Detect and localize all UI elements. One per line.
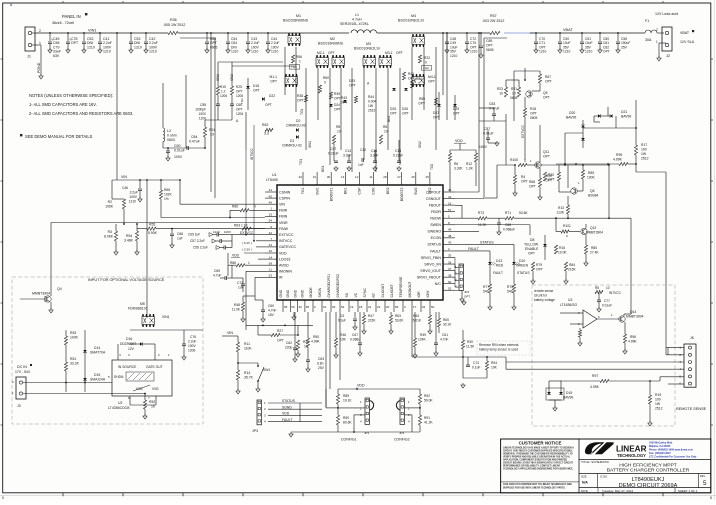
svg-text:CLKOUT: CLKOUT (381, 284, 385, 298)
svg-text:33.2K: 33.2K (70, 362, 80, 366)
svg-text:FAULT: FAULT (430, 249, 442, 253)
svg-text:THIS CIRCUIT IS PROPRIETARY TO: THIS CIRCUIT IS PROPRIETARY TO LINEAR TE… (503, 483, 572, 486)
svg-text:OPT: OPT (543, 96, 550, 100)
svg-text:L2: L2 (167, 129, 171, 133)
svg-text:JP1: JP1 (364, 431, 370, 435)
svg-text:IMONOUT: IMONOUT (408, 281, 412, 297)
svg-text:NOTES (UNLESS OTHERWISE SPECIF: NOTES (UNLESS OTHERWISE SPECIFIED): (29, 93, 113, 98)
svg-text:SIZE: SIZE (581, 475, 587, 478)
svg-text:R49: R49 (420, 333, 426, 337)
svg-text:CSN: CSN (372, 187, 376, 195)
svg-text:OPT: OPT (340, 101, 347, 105)
svg-text:SW2: SW2 (418, 141, 422, 148)
svg-text:LINEAR TECHNOLOGY HAS MADE A B: LINEAR TECHNOLOGY HAS MADE A BEST EFFORT… (503, 446, 574, 449)
svg-text:FBOUT: FBOUT (429, 203, 442, 207)
svg-text:OPT: OPT (528, 252, 535, 256)
svg-text:36cell - 72cell: 36cell - 72cell (52, 21, 74, 25)
svg-text:C61: C61 (442, 333, 448, 337)
svg-text:1: 1 (299, 60, 301, 64)
svg-text:EXTVCC: EXTVCC (279, 233, 294, 237)
svg-text:BSC010NE2LSI: BSC010NE2LSI (398, 19, 424, 23)
svg-text:48: 48 (448, 234, 452, 238)
svg-text:STATUS: STATUS (480, 241, 494, 245)
svg-text:OPT: OPT (545, 179, 552, 183)
svg-text:remote sense: remote sense (534, 289, 554, 293)
svg-text:SRVO_IIN: SRVO_IIN (424, 262, 441, 266)
svg-text:R48: R48 (234, 303, 240, 307)
svg-text:R14: R14 (244, 371, 250, 375)
svg-text:4.99K: 4.99K (613, 158, 623, 162)
svg-text:TEMPSENSE: TEMPSENSE (399, 276, 403, 298)
svg-text:17: 17 (413, 305, 417, 309)
svg-text:VIN: VIN (227, 331, 233, 335)
svg-text:3.48K: 3.48K (124, 239, 134, 243)
svg-text:.005 1W 2512: .005 1W 2512 (163, 23, 185, 27)
svg-text:R92: R92 (424, 394, 430, 398)
svg-text:REV.: REV. (700, 475, 706, 478)
svg-text:5.01K: 5.01K (413, 319, 422, 323)
svg-text:10K: 10K (491, 366, 498, 370)
svg-text:0.1uF: 0.1uF (338, 319, 346, 323)
svg-text:5.90K: 5.90K (148, 231, 158, 235)
svg-text:100K: 100K (587, 176, 596, 180)
svg-text:0.47uF: 0.47uF (189, 140, 200, 144)
svg-text:1206: 1206 (220, 94, 227, 98)
svg-text:D21: D21 (621, 110, 627, 114)
svg-text:R75: R75 (507, 285, 513, 289)
svg-text:10: 10 (499, 92, 503, 96)
svg-text:R59: R59 (419, 97, 425, 101)
svg-text:CSNOUT: CSNOUT (426, 197, 442, 201)
svg-text:U1: U1 (272, 173, 277, 177)
svg-text:0.01uF: 0.01uF (174, 149, 185, 153)
svg-text:C63: C63 (318, 357, 324, 361)
svg-text:DATE:: DATE: (581, 490, 588, 493)
svg-text:GND: GND (293, 289, 297, 297)
svg-text:41: 41 (448, 195, 452, 199)
svg-text:IMONIN: IMONIN (279, 270, 292, 274)
svg-text:OPT: OPT (297, 99, 304, 103)
svg-text:59.0K: 59.0K (424, 399, 433, 403)
svg-text:BOOST1: BOOST1 (329, 187, 333, 201)
svg-text:549: 549 (507, 290, 513, 294)
svg-text:VDD: VDD (357, 384, 365, 388)
svg-text:BSC016N06NS: BSC016N06NS (318, 42, 344, 46)
svg-text:R25: R25 (236, 85, 242, 89)
svg-text:GATE OUT: GATE OUT (146, 365, 163, 369)
svg-text:IOR: IOR (417, 291, 421, 298)
svg-text:R80: R80 (591, 246, 597, 250)
svg-text:JP3: JP3 (252, 429, 258, 433)
svg-text:CHARGECFG1: CHARGECFG1 (327, 274, 331, 298)
svg-text:FBOW: FBOW (430, 217, 441, 221)
svg-text:BG2: BG2 (387, 115, 391, 122)
svg-text:R62: R62 (262, 123, 268, 127)
svg-text:R39: R39 (334, 92, 340, 96)
svg-text:R55: R55 (149, 223, 155, 227)
svg-text:MODE: MODE (309, 287, 313, 298)
svg-text:4.99K: 4.99K (311, 340, 320, 344)
svg-text:R47: R47 (368, 314, 374, 318)
svg-text:1210: 1210 (271, 50, 279, 54)
svg-text:0: 0 (324, 81, 326, 85)
svg-text:2- ALL SMD CAPACITORS AND RESI: 2- ALL SMD CAPACITORS AND RESISTORS ARE … (29, 111, 133, 116)
svg-text:Q6: Q6 (590, 189, 595, 193)
svg-text:OPT: OPT (418, 102, 425, 106)
svg-text:M2: M2 (330, 37, 335, 41)
svg-text:C14: C14 (345, 149, 351, 153)
svg-text:ENABLE: ENABLE (525, 247, 539, 251)
svg-text:R90: R90 (343, 416, 349, 420)
svg-text:R16: R16 (559, 246, 565, 250)
svg-text:( 3.3V ): ( 3.3V ) (242, 247, 252, 251)
svg-text:37: 37 (448, 267, 452, 271)
svg-text:CMMR1U-02: CMMR1U-02 (282, 144, 302, 148)
svg-text:EXTVCC: EXTVCC (521, 124, 525, 138)
svg-text:0 ohm: 0 ohm (167, 134, 177, 138)
svg-text:C85: C85 (200, 103, 206, 107)
svg-text:10.0K: 10.0K (558, 251, 567, 255)
svg-text:10K: 10K (340, 338, 347, 342)
svg-text:32: 32 (299, 175, 303, 179)
svg-text:12V SLA: 12V SLA (680, 40, 695, 44)
svg-text:1210: 1210 (450, 54, 458, 58)
svg-text:R6: R6 (454, 162, 458, 166)
svg-text:BG1: BG1 (344, 187, 348, 194)
svg-text:4.99K: 4.99K (590, 385, 600, 389)
svg-text:1uF: 1uF (177, 237, 183, 241)
svg-text:CSP: CSP (358, 187, 362, 195)
svg-text:D1: D1 (290, 139, 294, 143)
svg-text:R19: R19 (655, 393, 661, 397)
svg-text:R8: R8 (336, 125, 340, 129)
svg-text:42: 42 (269, 231, 273, 235)
svg-text:0.22uF: 0.22uF (328, 152, 339, 156)
svg-text:INTVCC: INTVCC (250, 147, 254, 160)
svg-text:PANEL IN: PANEL IN (62, 14, 81, 19)
svg-text:BSC028N06NS: BSC028N06NS (283, 19, 309, 23)
svg-text:R43: R43 (341, 96, 347, 100)
svg-text:20: 20 (386, 305, 390, 309)
svg-text:N/A: N/A (582, 481, 588, 485)
svg-text:R60: R60 (323, 76, 329, 80)
svg-text:D26: D26 (402, 107, 408, 111)
svg-text:10: 10 (512, 92, 516, 96)
svg-text:C69: C69 (214, 269, 220, 273)
svg-text:VIN: VIN (121, 175, 127, 179)
svg-text:R17: R17 (641, 143, 647, 147)
svg-text:53.6K: 53.6K (519, 211, 528, 215)
svg-text:100V: 100V (174, 155, 183, 159)
svg-text:1%: 1% (164, 197, 169, 201)
svg-text:FBIR: FBIR (279, 209, 288, 213)
svg-text:D2: D2 (296, 119, 300, 123)
svg-text:C83: C83 (489, 102, 495, 106)
svg-text:15: 15 (269, 213, 273, 217)
svg-text:R2: R2 (108, 200, 112, 204)
svg-text:HOWEVER, IT REMAINS THE CUSTOM: HOWEVER, IT REMAINS THE CUSTOMER'S RESPO… (503, 452, 573, 455)
svg-text:OPT: OPT (536, 268, 543, 272)
svg-text:113K: 113K (557, 211, 565, 215)
svg-text:BAV99: BAV99 (566, 116, 576, 120)
svg-text:LT1636/SO: LT1636/SO (560, 303, 577, 307)
svg-text:SMAT70A: SMAT70A (90, 351, 106, 355)
svg-text:0605: 0605 (486, 48, 494, 52)
svg-text:TITLE: SCHEMATIC: TITLE: SCHEMATIC (581, 460, 610, 464)
svg-text:HIGH EFFICIENCY MPPT: HIGH EFFICIENCY MPPT (619, 462, 677, 468)
svg-text:C89: C89 (486, 39, 492, 43)
svg-text:OPT: OPT (402, 112, 409, 116)
svg-text:R67: R67 (545, 75, 551, 79)
svg-text:D29: D29 (453, 107, 459, 111)
svg-text:FBIN: FBIN (279, 215, 288, 219)
svg-text:VDD: VDD (282, 412, 290, 416)
svg-text:YELLOW: YELLOW (524, 243, 539, 247)
svg-text:57: 57 (448, 208, 452, 212)
svg-text:4.7uH: 4.7uH (352, 18, 362, 22)
svg-text:2: 2 (656, 28, 658, 32)
svg-text:Q14: Q14 (630, 310, 637, 314)
svg-text:C62: C62 (286, 341, 292, 345)
svg-text:TG1: TG1 (301, 187, 305, 194)
svg-text:SWENO: SWENO (427, 230, 441, 234)
svg-text:11.0K: 11.0K (232, 308, 241, 312)
svg-text:BAV99: BAV99 (621, 115, 631, 119)
svg-text:8.06K: 8.06K (104, 235, 114, 239)
svg-text:124K: 124K (418, 338, 427, 342)
svg-text:J1: J1 (27, 55, 31, 59)
svg-text:R56: R56 (296, 55, 302, 59)
svg-text:DEMO CIRCUIT 2069A: DEMO CIRCUIT 2069A (619, 483, 678, 489)
svg-text:APPLICATION. COMPONENT SUBSTIT: APPLICATION. COMPONENT SUBSTITUTION AND … (503, 458, 568, 461)
svg-text:CSPIN: CSPIN (279, 196, 290, 200)
svg-text:VIN1: VIN1 (88, 29, 96, 33)
svg-text:100V: 100V (199, 112, 207, 116)
svg-text:4.99K: 4.99K (628, 340, 637, 344)
svg-text:FBOR: FBOR (431, 210, 441, 214)
svg-text:N/C: N/C (435, 282, 442, 286)
svg-text:R27: R27 (277, 329, 283, 333)
svg-text:60: 60 (448, 280, 452, 284)
svg-text:2512: 2512 (368, 109, 376, 113)
svg-text:VC: VC (354, 292, 358, 297)
svg-text:56: 56 (395, 305, 399, 309)
svg-text:50: 50 (431, 305, 435, 309)
svg-text:TECHNOLOGY APPLICATIONS ENGINE: TECHNOLOGY APPLICATIONS ENGINEERING FOR … (503, 467, 574, 470)
svg-text:VDD: VDD (455, 139, 463, 143)
svg-text:1nF: 1nF (358, 163, 364, 167)
svg-text:30: 30 (327, 175, 331, 179)
svg-text:53: 53 (269, 274, 273, 278)
svg-text:R22: R22 (424, 56, 430, 60)
svg-text:OPT: OPT (453, 112, 460, 116)
svg-text:64: 64 (422, 305, 426, 309)
svg-text:D14: D14 (94, 346, 100, 350)
svg-text:1210: 1210 (213, 230, 220, 234)
svg-text:circuit for: circuit for (534, 294, 548, 298)
svg-text:F1: F1 (645, 19, 649, 23)
svg-text:FAULT: FAULT (468, 247, 480, 251)
svg-text:LTC Confidential-For Customer: LTC Confidential-For Customer Use Only (649, 455, 697, 458)
svg-text:0.068uF: 0.068uF (503, 228, 515, 232)
svg-text:R6: R6 (383, 125, 387, 129)
svg-text:IC NO.: IC NO. (600, 475, 608, 478)
svg-text:25V: 25V (318, 366, 325, 370)
svg-text:GND: GND (279, 289, 283, 297)
svg-text:GND: GND (301, 289, 305, 297)
svg-text:R53: R53 (70, 331, 76, 335)
svg-text:OPT: OPT (521, 180, 528, 184)
svg-text:VBAT: VBAT (680, 31, 690, 35)
svg-text:14: 14 (269, 255, 273, 259)
svg-text:TECHNOLOGY: TECHNOLOGY (617, 453, 646, 458)
svg-text:C57 2.2uF: C57 2.2uF (190, 239, 205, 243)
svg-text:RED: RED (496, 264, 504, 268)
svg-text:D18: D18 (253, 84, 259, 88)
svg-text:CONFIG2: CONFIG2 (394, 438, 410, 442)
svg-text:AVDD: AVDD (279, 264, 289, 268)
svg-text:R64: R64 (413, 314, 419, 318)
svg-text:VERIFY PROPER AND RELIABLE OPE: VERIFY PROPER AND RELIABLE OPERATION IN … (503, 455, 571, 458)
svg-text:J3: J3 (17, 404, 21, 408)
svg-text:OPT: OPT (530, 112, 537, 116)
svg-text:1210: 1210 (231, 50, 239, 54)
svg-text:STATUS: STATUS (427, 243, 441, 247)
svg-text:OPT: OPT (236, 108, 243, 112)
svg-text:R52: R52 (149, 400, 155, 404)
svg-text:1000pF: 1000pF (195, 108, 206, 112)
svg-text:1: 1 (39, 41, 41, 45)
svg-text:OPT: OPT (464, 295, 470, 299)
svg-text:CSNIN: CSNIN (279, 190, 291, 194)
svg-text:BOOST2: BOOST2 (400, 187, 404, 201)
svg-text:R86: R86 (230, 261, 236, 265)
svg-text:R24: R24 (209, 128, 215, 132)
svg-text:C77: C77 (604, 299, 610, 303)
svg-text:110K: 110K (244, 347, 252, 351)
svg-text:41.2K: 41.2K (424, 421, 433, 425)
svg-text:OPT: OPT (265, 103, 272, 107)
svg-text:0603: 0603 (167, 138, 175, 142)
svg-text:PERFORMANCE OR RELIABILITY. CO: PERFORMANCE OR RELIABILITY. CONTACT LINE… (503, 464, 560, 467)
svg-text:24: 24 (269, 243, 273, 247)
svg-text:1.2: 1.2 (221, 90, 226, 94)
svg-text:IN SOURCE: IN SOURCE (118, 365, 137, 369)
svg-text:SW1: SW1 (308, 141, 312, 148)
svg-text:3.32K: 3.32K (454, 167, 463, 171)
svg-text:16: 16 (448, 201, 452, 205)
svg-text:10: 10 (269, 249, 273, 253)
svg-text:TG1: TG1 (299, 159, 303, 165)
svg-text:C73: C73 (237, 281, 243, 285)
svg-text:R54: R54 (126, 234, 132, 238)
svg-text:R30: R30 (467, 340, 473, 344)
svg-text:28: 28 (383, 175, 387, 179)
svg-text:CONFIG1: CONFIG1 (341, 438, 357, 442)
svg-text:TG1: TG1 (300, 109, 304, 115)
svg-text:TG1: TG1 (291, 65, 297, 69)
svg-text:SRVO_FBIN: SRVO_FBIN (421, 256, 442, 260)
svg-text:C68: C68 (505, 223, 511, 227)
svg-text:MMBT3904: MMBT3904 (32, 292, 50, 296)
svg-text:R11: R11 (244, 342, 250, 346)
svg-text:59: 59 (291, 305, 295, 309)
svg-text:SGND: SGND (282, 405, 292, 409)
svg-text:1: 1 (418, 82, 420, 86)
svg-text:D22: D22 (269, 94, 275, 98)
svg-text:R63 1.1K: R63 1.1K (234, 224, 249, 228)
svg-text:18: 18 (359, 305, 363, 309)
svg-text:1206: 1206 (188, 349, 196, 353)
svg-text:TG2: TG2 (430, 164, 434, 170)
svg-text:R41: R41 (408, 72, 414, 76)
svg-text:FAULT: FAULT (493, 271, 503, 275)
svg-text:LINEAR: LINEAR (616, 445, 647, 454)
svg-text:OPT: OPT (334, 108, 341, 112)
svg-text:R21: R21 (511, 87, 517, 91)
svg-text:D16: D16 (126, 337, 132, 341)
svg-text:43: 43 (448, 241, 452, 245)
svg-text:100: 100 (655, 398, 661, 402)
svg-text:R97: R97 (592, 374, 598, 378)
svg-text:VIN: VIN (279, 203, 285, 207)
svg-text:2.2uF: 2.2uF (130, 191, 138, 195)
svg-text:Q11: Q11 (543, 150, 549, 154)
svg-text:22: 22 (377, 305, 381, 309)
svg-text:63: 63 (332, 305, 336, 309)
svg-text:OPT: OPT (603, 50, 610, 54)
svg-text:R94: R94 (491, 361, 497, 365)
svg-text:OPT: OPT (486, 44, 493, 48)
svg-text:100V: 100V (224, 230, 231, 234)
svg-text:R71: R71 (505, 211, 511, 215)
svg-text:VSS: VSS (152, 387, 159, 391)
svg-text:10: 10 (210, 133, 214, 137)
svg-text:OPT: OPT (253, 89, 260, 93)
svg-text:STATUS: STATUS (517, 271, 530, 275)
svg-text:0.004: 0.004 (368, 100, 376, 104)
svg-text:L1: L1 (355, 13, 359, 17)
svg-text:100: 100 (641, 148, 647, 152)
svg-text:2: 2 (39, 29, 41, 33)
svg-text:SW2: SW2 (414, 187, 418, 194)
svg-text:OPT: OPT (545, 80, 552, 84)
svg-text:Q13: Q13 (590, 226, 596, 230)
svg-text:( 6.2V ): ( 6.2V ) (242, 241, 252, 245)
svg-text:OPT: OPT (328, 51, 335, 55)
svg-text:45: 45 (269, 194, 273, 198)
svg-text:ECON: ECON (431, 236, 442, 240)
svg-text:1W: 1W (641, 152, 647, 156)
svg-text:C47: C47 (330, 147, 336, 151)
svg-text:C56 2.2uF: C56 2.2uF (193, 246, 208, 250)
svg-text:4.7uF: 4.7uF (213, 274, 221, 278)
svg-text:FAULT: FAULT (282, 418, 292, 422)
svg-text:0.22uF: 0.22uF (393, 154, 403, 158)
svg-text:C65 1uF: C65 1uF (188, 233, 200, 237)
svg-text:11.3K: 11.3K (478, 223, 487, 227)
svg-text:R100: R100 (510, 158, 518, 162)
svg-text:2512: 2512 (655, 407, 663, 411)
svg-text:6.8n: 6.8n (317, 362, 324, 366)
svg-text:10: 10 (384, 130, 388, 134)
svg-text:3.3: 3.3 (264, 132, 269, 136)
svg-text:549: 549 (483, 290, 489, 294)
svg-text:17V - 54V: 17V - 54V (15, 370, 31, 374)
svg-text:M2-1: M2-1 (317, 51, 325, 55)
svg-text:35: 35 (448, 254, 452, 258)
svg-text:42: 42 (448, 188, 452, 192)
